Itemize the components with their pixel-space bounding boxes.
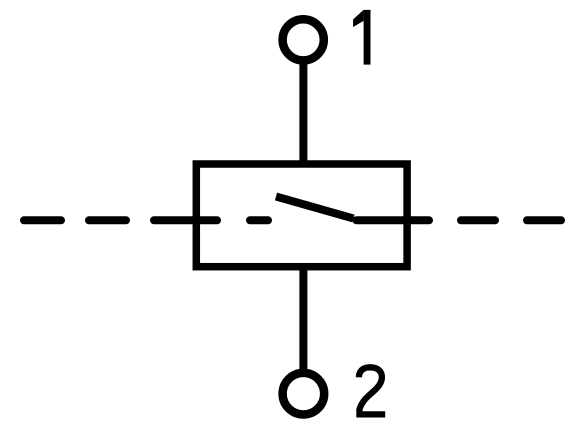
dashed actuator line left dash b bbox=[89, 216, 126, 224]
wire top (terminal 1 to box) bbox=[299, 63, 307, 166]
terminal circle 1 bbox=[283, 19, 324, 60]
enclosure box bbox=[196, 164, 407, 267]
pin label 1 bbox=[353, 10, 370, 65]
wire bottom (box to terminal 2) bbox=[299, 265, 307, 371]
dashed actuator line short dash inside box bbox=[250, 216, 268, 224]
terminal circle 2 bbox=[283, 373, 325, 415]
dashed actuator line right dash b bbox=[527, 216, 561, 224]
dashed actuator line left dash a bbox=[24, 216, 61, 224]
dashed actuator line right dash a bbox=[461, 216, 495, 224]
pin label 2 bbox=[356, 367, 385, 414]
switch blade (moving contact) bbox=[276, 197, 354, 219]
contact fixed lead left (dash crossing box edge) bbox=[154, 216, 217, 224]
contact fixed lead right (solid through box edge) bbox=[357, 216, 430, 224]
